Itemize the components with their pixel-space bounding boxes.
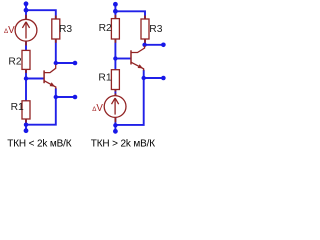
svg-text:R3: R3 [149, 24, 162, 35]
svg-text:R1: R1 [11, 102, 24, 113]
svg-text:R2: R2 [8, 56, 21, 67]
svg-text:R3: R3 [59, 24, 72, 35]
svg-text:R1: R1 [98, 73, 111, 84]
svg-text:R2: R2 [99, 23, 112, 34]
svg-text:ТКН > 2k мВ/К: ТКН > 2k мВ/К [91, 138, 155, 149]
svg-text:ТКН < 2k мВ/К: ТКН < 2k мВ/К [7, 138, 71, 149]
